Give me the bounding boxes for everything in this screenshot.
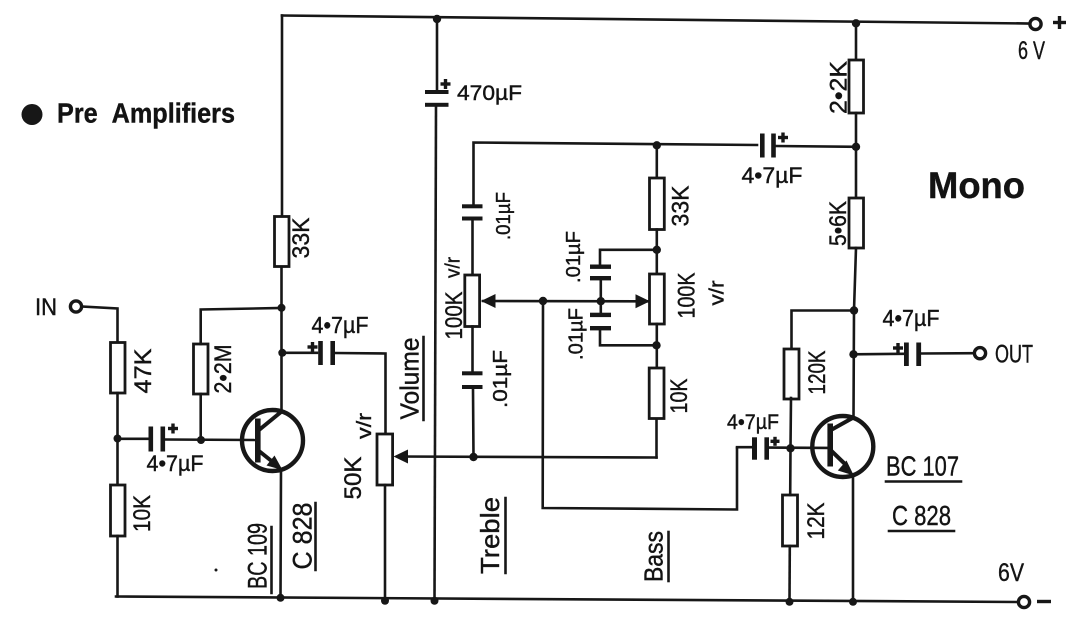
svg-text:6 V: 6 V [1018, 37, 1045, 65]
resistor 2.2M [194, 344, 209, 394]
node Q2 base junction [786, 444, 794, 452]
wire wiper node to bridge bottom cap [599, 301, 602, 313]
wire top rail to 2.2K [855, 23, 858, 60]
svg-text:BC 109: BC 109 [243, 523, 273, 589]
node 120K branch [850, 306, 858, 314]
svg-text:.01µF: .01µF [563, 231, 585, 283]
arrowhead into bass pot [636, 294, 651, 308]
wire treble cap to treble pot [471, 221, 474, 276]
resistor 10K (tone network) [649, 368, 664, 419]
polarity + of output cap [893, 343, 903, 353]
svg-text:IN: IN [35, 294, 57, 321]
svg-text:50K: 50K [340, 456, 367, 500]
capacitor 4.7uF stage1 coupling, left plate [318, 341, 323, 365]
svg-text:4•7µF: 4•7µF [147, 451, 204, 476]
svg-text:Treble: Treble [475, 497, 505, 574]
node bridge caps junction [597, 297, 605, 305]
svg-text:v/r: v/r [443, 257, 465, 278]
svg-text:v/r: v/r [354, 413, 376, 439]
wire Q1 emitter to ground rail [279, 469, 282, 598]
wire bottom supply rail [116, 597, 1018, 603]
terminal IN [70, 301, 81, 312]
capacitor 4.7uF output, left plate [904, 343, 909, 367]
node emitter-ground [277, 594, 285, 602]
polarity + of feedback cap [778, 133, 788, 143]
node tone bus 33K [653, 141, 661, 149]
svg-text:BC 107: BC 107 [886, 451, 959, 482]
svg-text:.01µF: .01µF [490, 350, 512, 408]
capacitor .01uF bridge bottom, lower plate [590, 326, 611, 330]
terminal OUT [974, 348, 985, 359]
svg-text:10K: 10K [666, 378, 693, 414]
capacitor 4.7uF bass coupling, right plate [764, 437, 769, 459]
svg-text:.01µF: .01µF [566, 308, 588, 360]
wire Q2 emitter to ground rail [852, 476, 855, 602]
capacitor .01uF bridge top, upper plate [590, 265, 611, 269]
wire left branch from top rail down to 33K [281, 16, 284, 217]
capacitor 470uF, bottom plate [425, 103, 449, 107]
wire takeoff corner to coupling cap [737, 446, 751, 449]
wire 33K bottom to Q1 collector [280, 267, 283, 411]
wire 12K bottom to ground rail [788, 546, 791, 602]
wire cap to volume pot top [336, 353, 386, 434]
svg-text:4•7µF: 4•7µF [312, 312, 369, 338]
svg-text:100K: 100K [441, 291, 468, 340]
svg-text:10K: 10K [129, 494, 156, 532]
potentiometer 50K volume [377, 434, 393, 485]
node top rail 2.2K [852, 19, 860, 27]
node volume-ground [381, 597, 389, 605]
svg-text:4•7µF: 4•7µF [742, 163, 803, 188]
wire 470uF branch from top rail to cap [436, 18, 439, 90]
node wiper takeoff to stage 2 [539, 297, 547, 305]
polarity + of stage1 coupling cap [308, 342, 318, 352]
node 12K ground [786, 598, 794, 606]
capacitor .01uF treble top, upper plate [462, 204, 483, 208]
wire treble chain bottom to volume wiper line [472, 389, 475, 457]
wire feedback cap to 2.2K/5.6K node [776, 145, 856, 148]
wire C1 to base node [165, 438, 254, 441]
wire takeoff down and across to coupling cap [543, 301, 737, 510]
svg-text:2•2M: 2•2M [210, 345, 237, 394]
svg-text:v/r: v/r [707, 280, 729, 305]
svg-text:33K: 33K [288, 217, 315, 259]
wiper wire of volume pot [398, 457, 657, 458]
capacitor 4.7uF bass coupling, left plate [752, 437, 757, 459]
node 47K/10K/C1 junction [114, 435, 122, 443]
potentiometer 100K treble [465, 275, 480, 327]
capacitor 4.7uF output, right plate [916, 343, 921, 367]
underline of C 828 (stage 1) [314, 503, 317, 570]
capacitor .01uF bridge bottom, upper plate [590, 313, 611, 317]
wire branch to 120K top [792, 311, 855, 348]
node Q2 emitter ground [849, 598, 857, 606]
wire 12K top to base node [789, 448, 792, 495]
potentiometer 100K bass [650, 274, 665, 324]
wire bridge top cap to wiper node [599, 280, 602, 301]
svg-text:OUT: OUT [995, 341, 1033, 369]
arrowhead volume wiper [394, 450, 409, 464]
capacitor .01uF treble bottom, upper plate [462, 371, 483, 375]
wire treble pot bottom to lower cap [471, 327, 474, 372]
wire 470uF bottom plate down to ground rail [435, 107, 437, 601]
underline of Bass [667, 532, 670, 581]
wire 47K bottom to 10K top [116, 393, 119, 485]
polarity + of bass coupling cap [771, 437, 780, 446]
wire 5.6K down to Q2 collector [854, 248, 857, 418]
svg-text:4•7µF: 4•7µF [883, 305, 940, 331]
wire output cap to OUT terminal [922, 352, 975, 355]
resistor 33K (tone network) [650, 178, 665, 230]
capacitor 4.7uF feedback, right plate [771, 134, 776, 158]
wire 2.2M bottom to base node [199, 394, 202, 440]
polarity + of C1 [168, 424, 178, 434]
resistor 10K (left) [111, 485, 126, 536]
capacitor .01uF treble top, lower plate [462, 217, 483, 221]
bullet of heading [22, 104, 43, 125]
node 10K/bridge junction [652, 341, 660, 349]
svg-text:Bass: Bass [639, 531, 669, 582]
svg-text:C 828: C 828 [892, 500, 951, 531]
svg-text:33K: 33K [668, 185, 695, 227]
wire bass pot to 10K [655, 324, 658, 368]
wire output tap to output cap [854, 352, 904, 355]
wire volume pot bottom to ground rail [384, 485, 387, 601]
arrowhead into treble pot [481, 294, 496, 308]
underline of C 828 (stage 2) [889, 530, 954, 533]
node 470uF top rail [433, 15, 441, 23]
svg-text:2•2K: 2•2K [826, 60, 853, 114]
svg-text:Volume: Volume [395, 338, 425, 420]
wire 10K bottom to ground rail [116, 536, 119, 597]
wiper bus between treble and bass pots [483, 300, 648, 303]
resistor 12K [783, 495, 798, 546]
resistor 5.6K [849, 198, 864, 248]
node 33K/bridge junction [653, 246, 661, 254]
terminal - (6V negative) [1018, 596, 1051, 607]
underline of Volume [422, 337, 425, 420]
capacitor C1 4.7uF input, right plate [161, 427, 166, 452]
wire stage1 tap to cap [282, 351, 317, 354]
wire junction to C1 left plate [118, 437, 149, 440]
svg-text:.01µF: .01µF [493, 192, 515, 240]
capacitor 4.7uF stage1 coupling, right plate [330, 341, 335, 365]
capacitor C1 4.7uF input, left plate [149, 427, 154, 452]
wire wiper line up to 10K (right) bottom [655, 418, 658, 458]
node base of Q1 / 2.2M bottom [197, 436, 205, 444]
transistor Q1 BC109 [242, 410, 303, 471]
wire coupling cap to Q2 base [769, 446, 827, 449]
resistor 33K (first stage load) [275, 217, 290, 267]
stray ink dot [215, 569, 218, 572]
svg-text:Pre Amplifiers: Pre Amplifiers [57, 98, 235, 129]
resistor 120K [784, 349, 799, 399]
transistor Q2 BC107 [812, 416, 873, 477]
underline of BC 107 [886, 480, 961, 483]
terminal + (6V positive) [1030, 16, 1066, 30]
capacitor .01uF bridge top, lower plate [590, 276, 611, 280]
svg-text:470µF: 470µF [457, 82, 522, 105]
svg-text:100K: 100K [674, 272, 701, 319]
wire 2.2K to 5.6K [855, 113, 858, 198]
node output tap [849, 350, 857, 358]
wire top supply rail [282, 16, 1029, 24]
wire top tone bus [474, 143, 758, 205]
svg-text:4•7µF: 4•7µF [727, 411, 779, 434]
resistor 2.2K [849, 60, 864, 113]
node feedback tap (2.2M junction) [278, 304, 286, 312]
capacitor .01uF treble bottom, lower plate [462, 385, 483, 389]
node feedback junction [852, 143, 860, 151]
wire 120K bottom to base node [789, 398, 792, 448]
underline of Treble [504, 498, 507, 573]
wire 2.2M top to collector line [201, 308, 282, 344]
wire bridge top cap up to 33K node [600, 250, 657, 265]
svg-text:120K: 120K [804, 350, 831, 395]
node 470uF-ground [431, 597, 439, 605]
wire tone bus to 33K (right) [655, 145, 658, 178]
node treble chain bottom on wiper wire [469, 453, 477, 461]
svg-text:C 828: C 828 [288, 503, 318, 570]
svg-text:5•6K: 5•6K [825, 200, 852, 246]
wire bridge bottom cap down to 10K node [600, 330, 657, 345]
wire 33K to bass pot [655, 230, 658, 275]
svg-text:6V: 6V [998, 559, 1024, 587]
resistor 47K [111, 343, 126, 394]
capacitor 470uF, top plate [425, 90, 449, 94]
svg-text:12K: 12K [803, 502, 830, 540]
wire IN to 47K top [83, 307, 118, 343]
svg-text:Mono: Mono [928, 165, 1025, 206]
polarity + of 470uF [441, 79, 451, 89]
node stage1 output tap [278, 349, 286, 357]
underline of BC 109 [270, 527, 273, 593]
capacitor 4.7uF feedback, left plate [760, 134, 765, 158]
svg-text:47K: 47K [130, 348, 157, 394]
